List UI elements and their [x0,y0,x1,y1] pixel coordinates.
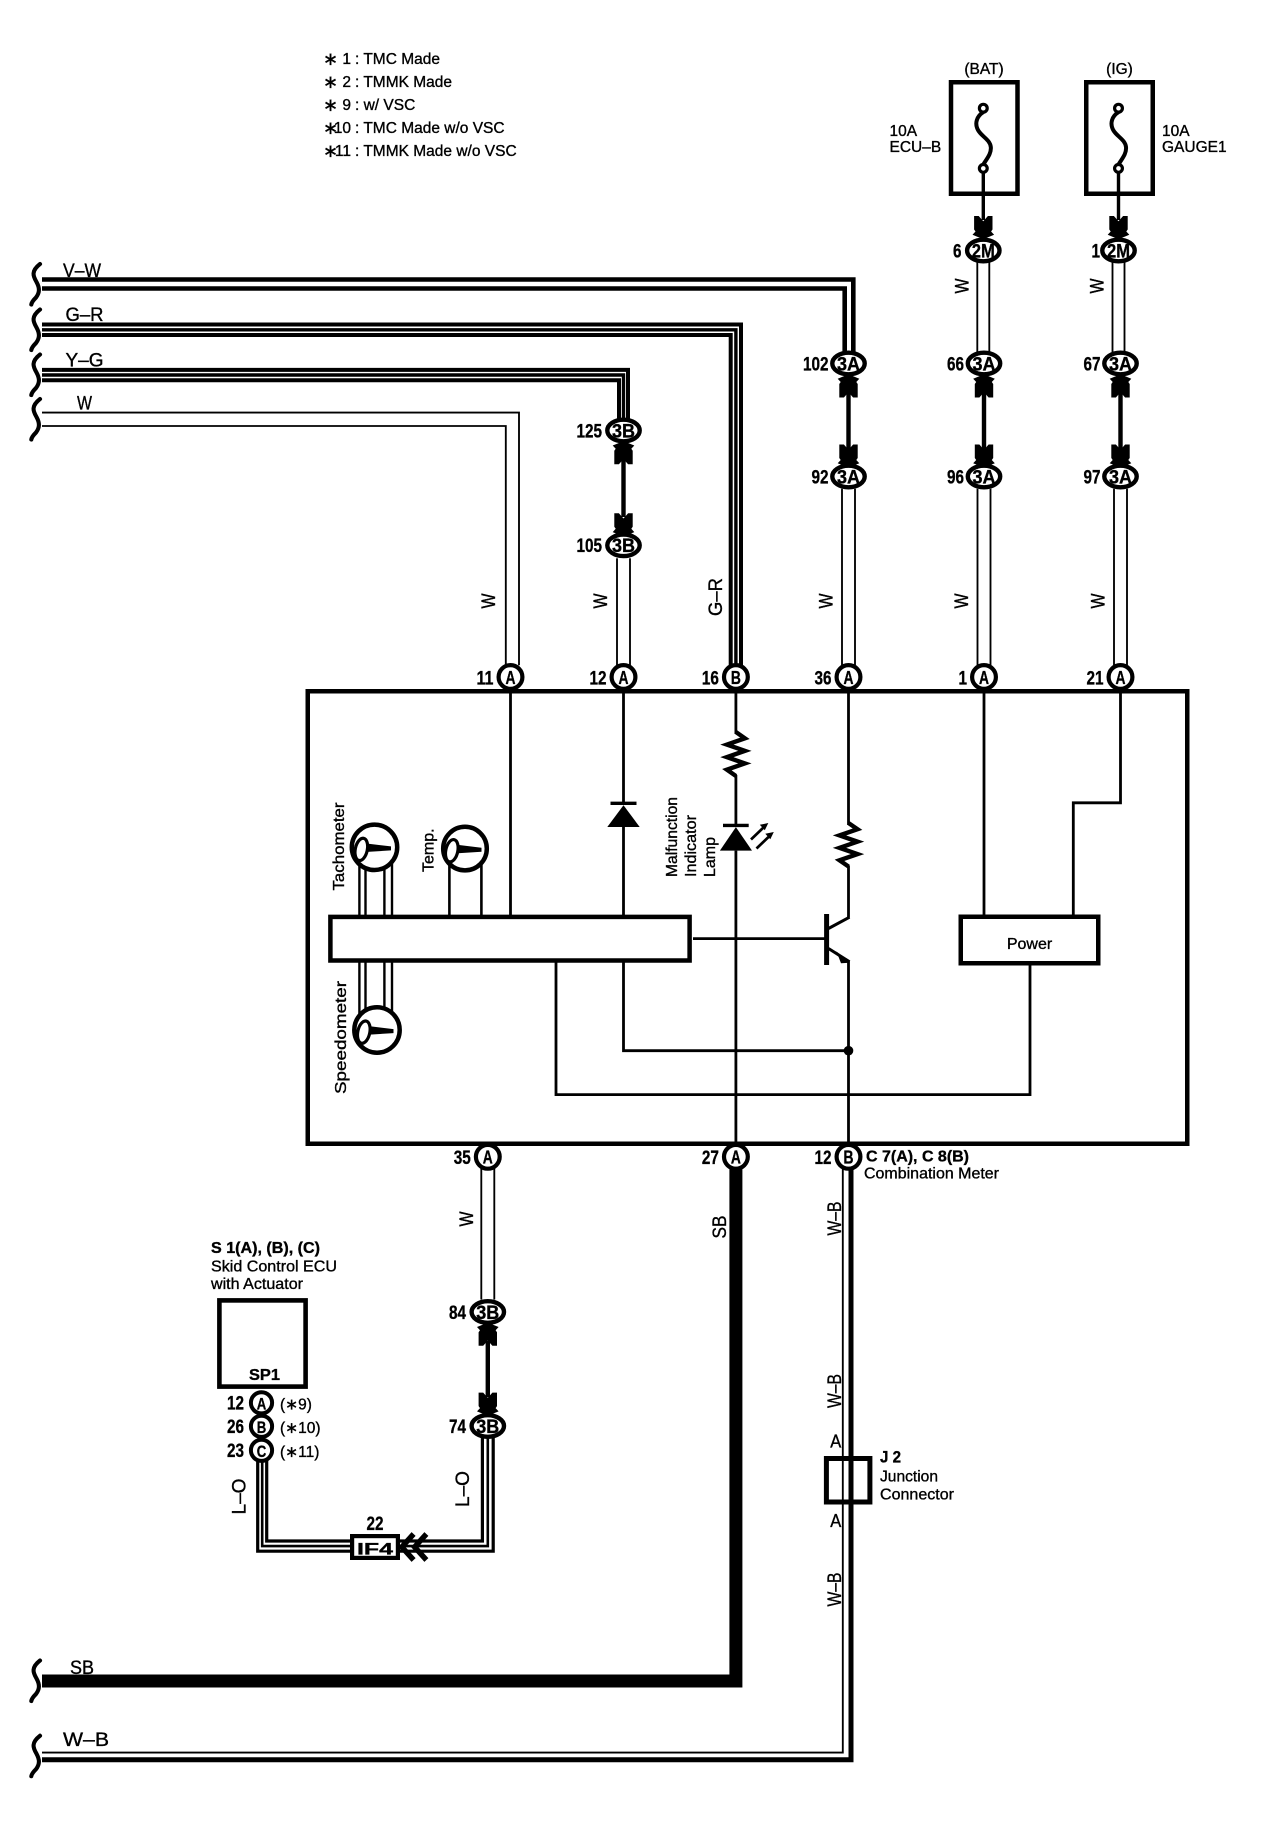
wire fuse ECU-B to 2M pin 6 [973,172,995,239]
meter pin 36 (A) top [815,665,861,689]
junction arrows 3A 66 to 96 [973,374,995,467]
resistor (MIL series) [727,732,745,776]
svg-text:10A: 10A [890,123,918,140]
connector 3A pin 96 [947,466,1000,489]
svg-text:Speedometer: Speedometer [333,980,350,1094]
wire W-B from meter pin 12B through J2 [31,1169,851,1777]
svg-text:23: 23 [227,1440,244,1462]
malfunction indicator lamp LED [720,823,774,851]
wire circuit bar to junction dot [624,960,846,1051]
svg-text:(BAT): (BAT) [964,61,1003,78]
connector 3A pin 102 [803,353,865,376]
svg-text:ECU–B: ECU–B [890,139,942,156]
svg-text:(∗10): (∗10) [280,1420,321,1437]
svg-text:26: 26 [227,1416,244,1438]
svg-text:35: 35 [454,1147,471,1169]
tachometer gauge [331,802,397,891]
svg-text:9: 9 [342,97,351,114]
svg-text:36: 36 [815,668,832,690]
svg-text:74: 74 [449,1416,466,1438]
wire meter pin 12 to diode [622,689,625,803]
wire meter pin 21 to power circuit [1073,689,1120,916]
wires tachometer to circuit bar [359,858,392,916]
svg-text:125: 125 [577,421,603,443]
connector 3A pin 66 [947,353,1000,376]
svg-text:G–R: G–R [706,578,727,616]
wire W from 2M pin 1 to 3A pin 67 [1088,262,1125,353]
wire W (left entry, to meter pin 11) [31,394,519,666]
junction arrows 3A 67 to 97 [1110,374,1132,467]
svg-text:11: 11 [335,143,351,160]
wire transistor base to circuit bar [693,937,825,940]
wire resistor to LED [735,775,738,825]
svg-text:J 2: J 2 [880,1449,901,1467]
svg-text:12: 12 [815,1147,832,1169]
svg-text:W: W [591,593,612,608]
svg-text:W–B: W–B [825,1202,846,1236]
svg-text:3A: 3A [1109,354,1132,375]
svg-text:W: W [952,278,973,293]
transistor (NPN) [827,914,850,965]
skid ECU pin 23 (C) (*11) [227,1440,319,1462]
wire W from 3A 92 to meter pin 36 [817,489,856,666]
svg-text:∗: ∗ [323,95,338,115]
svg-text:84: 84 [449,1302,466,1324]
svg-text:3A: 3A [837,354,860,375]
svg-text:A: A [619,667,629,688]
wire L-O from splice IF4 to skid control ECU pin 23 [230,1461,353,1551]
wire W from 3B 105 to meter pin 12 [591,558,630,665]
speedometer gauge [333,980,400,1094]
wires circuit bar to speedometer [359,961,392,1020]
svg-text:(∗11): (∗11) [280,1444,319,1461]
diode (meter internal) [607,803,639,827]
svg-text:Lamp: Lamp [702,837,719,877]
label Malfunction Indicator Lamp [664,797,719,877]
svg-text:SB: SB [710,1216,731,1239]
junction arrows 3B 84 to 74 [477,1323,499,1416]
svg-text:12: 12 [227,1393,244,1415]
meter pin 21 (A) top [1087,665,1133,689]
svg-text:∗: ∗ [323,49,338,69]
svg-text:A: A [979,667,989,688]
svg-text:A: A [257,1394,267,1413]
meter pin 11 (A) top [477,665,523,689]
svg-text:A: A [506,667,516,688]
svg-text:2M: 2M [972,241,995,262]
svg-text:: TMMK Made: : TMMK Made [355,74,452,91]
svg-text:W–B: W–B [825,1573,846,1607]
wire resistor to transistor [847,866,850,918]
svg-text:3A: 3A [973,467,996,488]
svg-text:96: 96 [947,467,964,489]
svg-text:3B: 3B [612,421,635,442]
svg-text:(∗9): (∗9) [280,1397,312,1414]
wire V-W (shielded, to 3A pin 102) [31,261,853,352]
svg-text:∗: ∗ [323,72,338,92]
svg-text:3B: 3B [476,1303,499,1324]
svg-text:with Actuator: with Actuator [210,1276,304,1293]
svg-text:Junction: Junction [880,1469,938,1486]
wire SB from meter pin 27 [31,1168,736,1701]
svg-text:L–O: L–O [230,1479,251,1515]
wire G-R (shielded, to meter pin 16) [31,305,741,665]
svg-text:1: 1 [1092,241,1101,263]
svg-text:A: A [1116,667,1126,688]
splice IF4 (22) [352,1513,426,1560]
svg-text:: TMC Made w/o VSC: : TMC Made w/o VSC [355,120,505,137]
connector 3A pin 97 [1084,466,1137,489]
svg-text:67: 67 [1084,354,1101,376]
junction arrows 3A 102 to 92 [838,374,860,467]
svg-text:SP1: SP1 [249,1367,280,1384]
wire Y-G (shielded, to 3B pin 125) [31,351,628,420]
svg-text:S 1(A), (B), (C): S 1(A), (B), (C) [211,1240,320,1257]
svg-text:W: W [479,593,500,608]
wire LED to meter pin 27 [735,851,738,1144]
svg-text:A: A [483,1147,493,1168]
svg-text:10A: 10A [1162,123,1190,140]
svg-text:1: 1 [959,668,968,690]
svg-text:A: A [731,1147,741,1168]
svg-text:21: 21 [1087,668,1104,690]
wire L-O from 3B 74 to splice IF4 [400,1438,493,1551]
svg-text:B: B [844,1147,854,1168]
svg-text:B: B [731,667,741,688]
svg-text:W–B: W–B [825,1374,846,1408]
svg-text:W: W [77,394,92,415]
skid ECU pin 26 (B) (*10) [227,1416,321,1438]
svg-text:IF4: IF4 [357,1541,394,1559]
connector 3B pin 125 [577,420,640,443]
resistor (transistor collector) [840,823,858,867]
connector 3B pin 84 [449,1301,504,1324]
svg-text:: TMMK Made w/o VSC: : TMMK Made w/o VSC [355,143,517,160]
svg-text:A: A [830,1432,841,1452]
svg-text:: TMC Made: : TMC Made [355,51,440,68]
svg-text:102: 102 [803,354,829,376]
svg-text:(IG): (IG) [1106,61,1133,78]
connector 3B pin 74 [449,1415,504,1438]
svg-text:11: 11 [477,668,494,690]
svg-text:16: 16 [702,668,719,690]
wire W from 2M pin 6 to 3A pin 66 [952,262,989,353]
svg-text:92: 92 [812,467,829,489]
svg-text:C 7(A), C 8(B): C 7(A), C 8(B) [866,1149,969,1166]
wire W from meter pin 35 to 3B 84 [457,1169,494,1300]
wire meter pin 16 to resistor [735,689,738,734]
connector 3A pin 67 [1084,353,1137,376]
svg-text:Power: Power [1007,936,1053,953]
svg-text:2M: 2M [1107,241,1130,262]
svg-text:6: 6 [953,241,962,263]
svg-text:W–B: W–B [63,1730,109,1751]
connector 3B pin 105 [577,535,640,558]
meter pin 35 (A) bottom [454,1145,500,1169]
svg-text:22: 22 [367,1513,384,1535]
svg-text:105: 105 [577,535,603,557]
svg-text:Skid Control ECU: Skid Control ECU [211,1259,337,1276]
svg-text:Malfunction: Malfunction [664,797,681,877]
svg-text:97: 97 [1084,467,1101,489]
svg-text:C: C [257,1442,267,1461]
wire fuse GAUGE1 to 2M pin 1 [1108,172,1130,239]
meter pin 12 (B) bottom [815,1145,861,1169]
label combination meter connectors [864,1149,1000,1183]
meter pin 16 (B) top [702,665,748,689]
wires temp gauge to circuit bar [449,860,481,916]
connector 2M pin 6 [953,240,1000,263]
circuit bar (internal block) [330,917,689,961]
junction arrows 3B 125 to 105 [613,441,635,536]
svg-text:L–O: L–O [453,1471,474,1507]
junction connector J2 [826,1432,954,1532]
svg-text:: w/ VSC: : w/ VSC [355,97,415,114]
svg-text:W: W [817,593,838,608]
wire meter pin 1 to power circuit [983,689,986,916]
wire circuit bar to power circuit [556,960,1030,1095]
wire meter pin 36 to resistor [847,689,850,825]
svg-text:GAUGE1: GAUGE1 [1162,139,1227,156]
fuse GAUGE1 10A (IG) [1086,61,1226,194]
svg-text:A: A [844,667,854,688]
wire transistor emitter to meter pin 12B [847,961,850,1144]
wire meter pin 11 to circuit bar [509,689,512,916]
svg-text:3B: 3B [476,1417,499,1438]
junction dot [844,1046,854,1056]
svg-text:W: W [457,1211,478,1226]
connector 3A pin 92 [812,466,865,489]
legend notes [323,49,517,161]
svg-text:W: W [1088,278,1109,293]
meter pin 1 (A) top [959,665,996,689]
svg-text:Temp.: Temp. [421,828,438,872]
skid control ECU block S1 [210,1240,337,1387]
fuse ECU-B 10A (BAT) [890,61,1018,194]
svg-text:2: 2 [342,74,351,91]
svg-text:B: B [257,1418,267,1437]
svg-text:W: W [1089,593,1110,608]
svg-text:Combination Meter: Combination Meter [864,1166,1000,1183]
temp gauge [421,827,487,872]
power circuit box [961,917,1099,964]
svg-text:27: 27 [702,1147,719,1169]
skid ECU pin 12 (A) (*9) [227,1392,312,1414]
svg-text:W: W [952,593,973,608]
connector 2M pin 1 [1092,240,1135,263]
svg-text:A: A [830,1511,841,1531]
svg-text:10: 10 [334,120,352,137]
wire diode to circuit bar [622,827,625,916]
svg-text:66: 66 [947,354,964,376]
svg-text:3A: 3A [837,467,860,488]
wire W from 3A 97 to meter pin 21 [1089,489,1128,666]
svg-text:3A: 3A [1109,467,1132,488]
svg-text:Indicator: Indicator [683,814,700,877]
svg-text:Tachometer: Tachometer [331,802,348,891]
svg-text:Connector: Connector [880,1487,955,1504]
combination meter box [308,691,1188,1144]
svg-text:12: 12 [590,668,607,690]
svg-text:1: 1 [342,51,351,68]
wire W from 3A 96 to meter pin 1 [952,489,991,666]
meter pin 27 (A) bottom [702,1145,748,1169]
meter pin 12 (A) top [590,665,636,689]
svg-text:SB: SB [70,1658,94,1679]
svg-text:3A: 3A [973,354,996,375]
svg-text:3B: 3B [612,536,635,557]
